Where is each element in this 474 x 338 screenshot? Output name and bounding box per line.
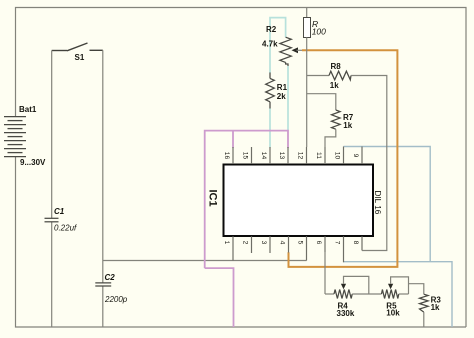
svg-text:R1: R1 <box>277 83 288 92</box>
svg-text:C1: C1 <box>54 207 65 216</box>
svg-text:0.22uf: 0.22uf <box>54 224 77 233</box>
battery Bat1 <box>4 117 26 157</box>
svg-text:5: 5 <box>297 241 304 245</box>
svg-text:R8: R8 <box>331 62 342 71</box>
svg-text:R2: R2 <box>266 25 277 34</box>
svg-text:2k: 2k <box>277 92 286 101</box>
svg-text:13: 13 <box>278 152 285 160</box>
capacitor C1 <box>45 218 59 222</box>
pin 1 <box>223 236 233 260</box>
pin 2 <box>242 236 252 253</box>
svg-text:10: 10 <box>334 152 341 160</box>
svg-text:7: 7 <box>334 241 341 245</box>
pin 8 <box>352 236 362 250</box>
svg-text:2200p: 2200p <box>104 295 128 304</box>
svg-text:1k: 1k <box>330 81 339 90</box>
resistor R8 <box>307 62 387 251</box>
resistor R1 <box>266 73 288 109</box>
wire blue pins9-10 bracket <box>344 147 431 262</box>
resistor R7 <box>307 94 354 164</box>
pin 11 <box>315 147 325 164</box>
svg-text:1k: 1k <box>343 121 352 130</box>
svg-text:2: 2 <box>242 241 249 245</box>
svg-text:12: 12 <box>297 152 304 160</box>
svg-text:IC1: IC1 <box>207 189 219 206</box>
switch S1 <box>52 43 103 51</box>
resistor R 100 box <box>304 8 327 148</box>
svg-text:1: 1 <box>223 241 230 245</box>
wire C2 junction to pins 1 and 5 <box>103 260 307 262</box>
svg-text:100: 100 <box>312 27 326 37</box>
pin 12 <box>297 147 307 164</box>
wire C2 bottom down <box>102 286 104 327</box>
svg-text:11: 11 <box>315 152 322 159</box>
svg-text:Bat1: Bat1 <box>19 105 37 114</box>
svg-text:3: 3 <box>260 241 267 245</box>
wire C1 bottom down <box>51 222 53 327</box>
pin 5 <box>297 236 307 260</box>
pin 10 <box>334 147 344 165</box>
svg-text:S1: S1 <box>75 53 85 62</box>
wire purple pin16 drop <box>232 131 234 148</box>
svg-text:16: 16 <box>223 152 230 160</box>
pin 14 <box>260 147 270 164</box>
potentiometer R2 <box>262 25 302 66</box>
wire orange wiper net <box>289 50 398 267</box>
wire bottom bus <box>16 157 467 327</box>
svg-text:15: 15 <box>242 152 249 160</box>
wire S1 right down to C2 <box>102 50 104 283</box>
svg-text:8: 8 <box>352 241 359 245</box>
svg-text:330k: 330k <box>337 309 355 318</box>
pin 3 <box>260 236 270 253</box>
svg-text:C2: C2 <box>105 273 116 282</box>
pin 16 <box>223 147 233 164</box>
potentiometer R4 <box>325 276 382 317</box>
pin 9 <box>352 147 362 165</box>
svg-text:1k: 1k <box>431 303 440 312</box>
wire cyan R2top-R1top <box>270 18 286 73</box>
svg-text:DIL 16: DIL 16 <box>373 190 382 214</box>
potentiometer R5 <box>382 277 409 318</box>
svg-text:9: 9 <box>352 154 359 158</box>
capacitor C2 <box>95 283 111 286</box>
wire blue pin7 to bus <box>344 262 453 327</box>
svg-text:4: 4 <box>279 241 286 245</box>
wire purple to bus <box>205 268 234 327</box>
wire S1 left down through C1 <box>51 51 53 219</box>
svg-text:10k: 10k <box>386 309 400 318</box>
pin 6 <box>315 236 325 294</box>
svg-text:9...30V: 9...30V <box>20 158 46 167</box>
svg-text:4.7k: 4.7k <box>262 40 278 49</box>
svg-text:6: 6 <box>315 241 322 245</box>
wire purple pins16-13 <box>205 131 288 269</box>
pin 13 <box>278 147 288 164</box>
svg-text:14: 14 <box>260 152 267 160</box>
pin 15 <box>242 147 252 164</box>
wire cyan R1bottom-pin14 <box>269 109 271 148</box>
wire cyan R2bottom-down <box>287 66 289 131</box>
pin 7 <box>334 236 344 262</box>
IC1 body <box>224 165 374 237</box>
pin 4 <box>279 236 289 252</box>
resistor R3 <box>409 284 442 327</box>
